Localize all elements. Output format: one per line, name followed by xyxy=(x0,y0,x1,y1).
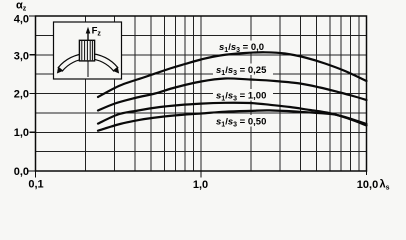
y tick label 3,0 xyxy=(14,51,29,63)
curve label s1/s3 = 0,25 xyxy=(213,64,273,78)
vertical log gridlines xyxy=(85,16,359,171)
inset arch (vault) xyxy=(58,53,118,71)
inset box xyxy=(54,22,122,79)
y tick label 2,0 xyxy=(14,89,29,101)
x tick label 10,0 xyxy=(357,179,378,191)
inset label Fz xyxy=(92,25,102,37)
y tick label 4,0 xyxy=(14,14,29,26)
y tick label 1,0 xyxy=(14,127,29,139)
svg-text:1,0: 1,0 xyxy=(193,179,208,191)
svg-text:0,1: 0,1 xyxy=(28,179,43,191)
curve s1/s3=0,0 xyxy=(98,52,367,97)
y axis title alpha_z xyxy=(16,0,27,13)
svg-text:1,0: 1,0 xyxy=(14,127,29,139)
curve label s1/s3 = 1,00 xyxy=(213,89,273,102)
svg-text:0,0: 0,0 xyxy=(14,166,29,178)
svg-text:4,0: 4,0 xyxy=(14,14,29,26)
inset arch left arrowhead xyxy=(57,67,64,74)
curve s1/s3=0,25 xyxy=(98,78,367,110)
curve s1/s3=1,00 xyxy=(98,103,367,126)
x tick label 1,0 xyxy=(193,179,208,191)
curve s1/s3=0,50 xyxy=(98,110,367,130)
plot frame xyxy=(36,16,367,171)
y axis ticks xyxy=(27,16,36,171)
x tick label 0,1 xyxy=(28,179,43,191)
inset arch right arrowhead xyxy=(113,67,120,74)
inset center axis line xyxy=(87,33,89,77)
y tick label 0,0 xyxy=(14,166,29,178)
inset force arrow Fz xyxy=(86,27,91,41)
x axis ticks xyxy=(36,171,367,178)
horizontal gridlines (0.5 steps) xyxy=(36,35,367,151)
inset load block (hatched) xyxy=(79,40,94,61)
svg-text:3,0: 3,0 xyxy=(14,51,29,63)
curve label s1/s3 = 0,0 xyxy=(216,41,269,55)
x axis title lambda_s xyxy=(380,179,390,192)
curve label s1/s3 = 0,50 xyxy=(213,115,273,129)
svg-text:2,0: 2,0 xyxy=(14,89,29,101)
svg-text:10,0: 10,0 xyxy=(357,179,378,191)
